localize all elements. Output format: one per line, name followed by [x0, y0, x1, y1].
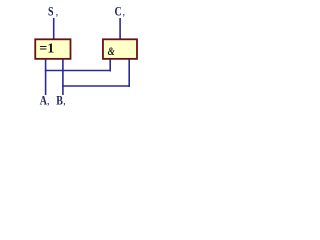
svg-text:&: &: [108, 46, 115, 58]
wire S output (top of XOR gate): [53, 18, 55, 39]
wire A vertical (XOR left input down to label A): [45, 60, 47, 96]
svg-text:B,: B,: [56, 94, 65, 107]
XOR gate U1 (=1): [35, 39, 70, 59]
svg-text:C,: C,: [115, 5, 125, 18]
svg-text:=1: =1: [39, 42, 54, 57]
svg-text:A,: A,: [40, 94, 49, 107]
AND gate U2 (&): [103, 39, 137, 59]
wire AND right input pin vertical: [128, 60, 130, 88]
wire AND left input pin vertical: [109, 60, 111, 72]
wire B vertical (XOR right input down to label B): [62, 60, 64, 96]
svg-text:S,: S,: [48, 5, 58, 18]
wire C output (top of AND gate): [119, 18, 121, 39]
wire A branch horizontal (to AND left input): [45, 70, 110, 72]
wire B branch horizontal (to AND right input): [62, 85, 129, 87]
